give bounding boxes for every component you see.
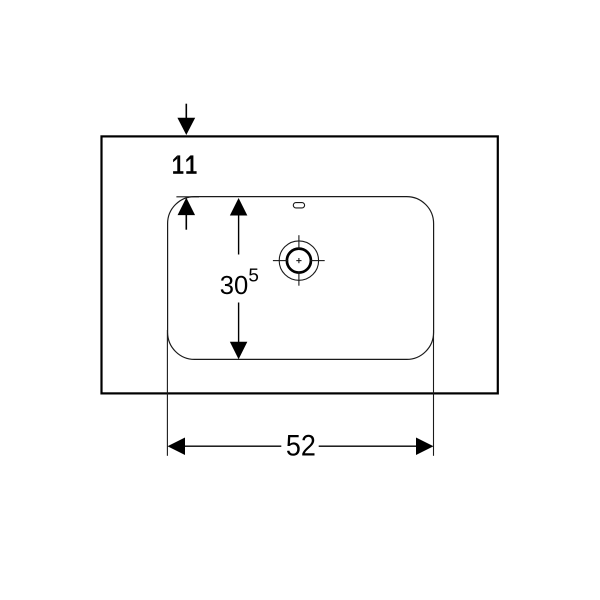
overflow slot [293, 203, 304, 208]
drain outer circle [279, 241, 318, 280]
svg-text:5: 5 [248, 266, 259, 287]
dimension text 52 [286, 429, 316, 462]
dimension 52 line [185, 445, 417, 447]
dimension 11 upper arrow [177, 104, 195, 135]
drain crosshair [273, 235, 325, 286]
dimension 30.5 bottom arrow [230, 342, 248, 360]
extension tick for 11 dimension [176, 196, 199, 198]
extension line left [166, 330, 168, 456]
svg-text:30: 30 [220, 270, 249, 300]
dimension text 5 superscript [248, 266, 259, 287]
dimension 52 left arrow [168, 437, 186, 455]
basin outline [168, 197, 434, 360]
dimension text 11 [173, 155, 197, 173]
extension line right [433, 330, 435, 456]
dimension 52 right arrow [416, 437, 434, 455]
dimension 30.5 line [238, 215, 240, 342]
dimension text 30 [220, 270, 249, 300]
svg-text:52: 52 [286, 429, 316, 462]
dimension 11 lower arrow [178, 198, 196, 230]
drain thick ring [287, 249, 311, 273]
dimension 30.5 top arrow [230, 198, 248, 216]
countertop outline [102, 136, 498, 393]
